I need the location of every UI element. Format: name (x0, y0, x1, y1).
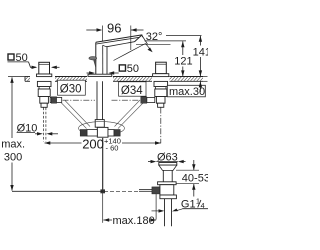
svg-text:200: 200 (82, 137, 104, 152)
svg-text:Ø30: Ø30 (60, 84, 82, 96)
svg-text:32°: 32° (146, 31, 163, 43)
deck countertop cross-section left extension line (8, 76, 25, 78)
right outlet dash-dot centerline (112, 99, 141, 101)
label max.30 box (167, 85, 205, 98)
dimension 200 +140/-60 (45, 136, 161, 152)
drain label diameter 63 (148, 151, 186, 163)
left valve handle (39, 62, 50, 74)
right valve flange (153, 74, 169, 77)
svg-text:121: 121 (174, 56, 192, 68)
spout lever knob (89, 57, 97, 68)
drain plug flange (159, 163, 177, 171)
svg-text:50: 50 (127, 63, 139, 75)
drain stem (163, 170, 172, 181)
dimension max.30 arrow (199, 81, 202, 92)
left valve flange (37, 74, 52, 77)
right valve side outlet (141, 97, 155, 103)
T connector center block (97, 127, 108, 137)
drain tee flange (158, 182, 177, 185)
left flexible hose lines (61, 100, 90, 129)
left valve side outlet (50, 97, 62, 103)
svg-text:Ø10: Ø10 (17, 123, 38, 135)
T connector left arm (80, 130, 97, 137)
svg-text:40-53: 40-53 (182, 172, 208, 184)
spout shank below deck (95, 81, 104, 127)
svg-text:141: 141 (193, 46, 208, 58)
svg-text:Ø34: Ø34 (121, 85, 143, 97)
drain lower ring (160, 195, 177, 199)
right valve centerline to 200 dim (160, 108, 162, 144)
spout base flange (88, 74, 112, 76)
label diameter 34 box (119, 82, 146, 97)
angle annotation 32 deg (114, 31, 187, 60)
right flexible hose lines (115, 100, 144, 129)
spout arm top edge (96, 35, 142, 42)
spout arm inner top face edge (96, 37, 139, 44)
left handle right-side arrow (51, 66, 60, 69)
drain lever rod (155, 194, 157, 220)
svg-text:- 60: - 60 (106, 144, 119, 153)
left valve body below deck (37, 81, 51, 107)
dimension 121 (174, 41, 192, 76)
dimension max.180 (103, 215, 156, 227)
right valve body below deck (154, 81, 168, 107)
dimension 141 reference line (166, 35, 202, 37)
dimension 96 (86, 21, 143, 50)
tailpipe left arrow (152, 209, 165, 212)
dimension 40-53 (176, 160, 210, 197)
spout tip face (135, 35, 143, 42)
dimension 141 (193, 36, 211, 77)
label G1 1/4 (172, 197, 208, 212)
spout arm underside edge (103, 42, 135, 47)
label square 50 left handle (8, 52, 38, 69)
svg-text:300: 300 (4, 152, 22, 164)
dimension max 300 (1, 77, 25, 191)
svg-text:max.30: max.30 (169, 86, 205, 98)
svg-text:max.: max. (1, 139, 25, 151)
right valve handle (156, 62, 167, 73)
pull rod below T (100, 138, 105, 223)
svg-text:max.180: max.180 (113, 215, 155, 227)
deck countertop hatched band (25, 76, 208, 82)
left outlet dash-dot centerline (63, 99, 96, 101)
T connector right arm (108, 130, 120, 137)
label diameter 10 (17, 123, 58, 136)
svg-text:96: 96 (107, 21, 121, 36)
label diameter 30 box (58, 80, 86, 95)
drain tee body (152, 185, 174, 195)
label square 50 spout (87, 63, 140, 75)
drain tailpipe (165, 199, 172, 227)
pop-up rod to drain (139, 189, 153, 191)
left valve hose dashed lines (43, 108, 46, 142)
max300 bottom reference line (12, 190, 139, 192)
hose envelope ellipse (79, 122, 125, 135)
spout column (96, 42, 107, 74)
